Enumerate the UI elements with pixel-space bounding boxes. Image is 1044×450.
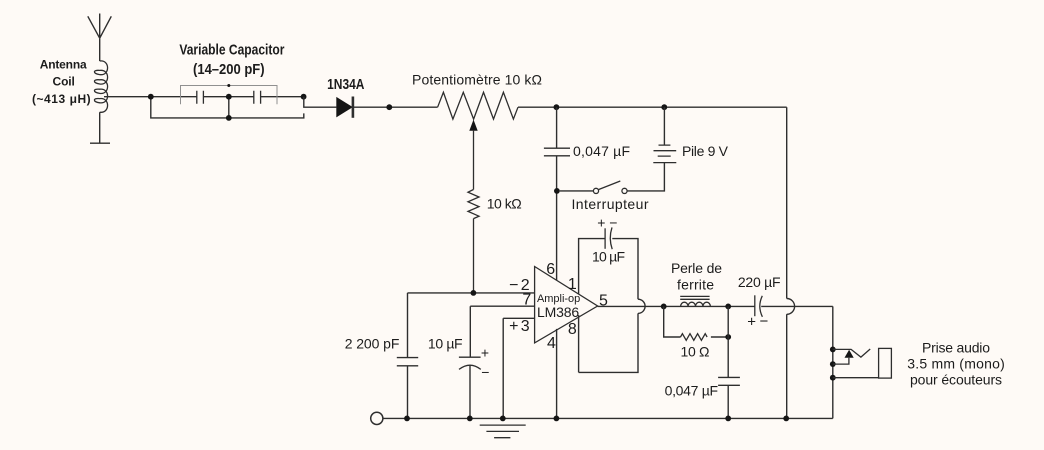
svg-text:+: +: [597, 215, 605, 231]
svg-text:10 Ω: 10 Ω: [681, 343, 710, 359]
svg-text:−: −: [481, 364, 489, 380]
svg-text:Variable Capacitor: Variable Capacitor: [179, 41, 285, 58]
svg-text:Potentiomètre 10 kΩ: Potentiomètre 10 kΩ: [412, 72, 542, 88]
svg-text:Perle de: Perle de: [671, 260, 722, 276]
svg-text:10 kΩ: 10 kΩ: [487, 196, 522, 212]
svg-text:(~413 μH): (~413 μH): [32, 92, 91, 106]
svg-text:−: −: [760, 313, 769, 330]
svg-text:10 µF: 10 µF: [428, 335, 463, 351]
svg-text:5: 5: [599, 293, 608, 310]
svg-text:Prise audio: Prise audio: [922, 340, 990, 356]
svg-text:+: +: [747, 314, 756, 331]
svg-text:Pile 9 V: Pile 9 V: [682, 143, 729, 159]
svg-text:Interrupteur: Interrupteur: [572, 196, 649, 212]
svg-text:Antenna: Antenna: [40, 58, 87, 72]
svg-text:1: 1: [568, 276, 577, 293]
svg-text:Coil: Coil: [53, 75, 75, 89]
svg-text:6: 6: [546, 261, 555, 278]
svg-text:4: 4: [547, 335, 556, 352]
svg-text:pour écouteurs: pour écouteurs: [910, 371, 1002, 387]
svg-text:8: 8: [568, 321, 577, 338]
svg-text:1N34A: 1N34A: [327, 76, 365, 93]
svg-text:−: −: [609, 214, 617, 230]
svg-text:+: +: [481, 344, 489, 360]
svg-text:3.5 mm (mono): 3.5 mm (mono): [907, 356, 1005, 372]
svg-text:10 µF: 10 µF: [592, 249, 625, 265]
svg-text:LM386: LM386: [537, 304, 579, 320]
svg-text:0,047 µF: 0,047 µF: [665, 383, 719, 399]
svg-text:0,047 µF: 0,047 µF: [573, 143, 630, 159]
svg-text:2 200 pF: 2 200 pF: [345, 335, 400, 351]
svg-text:220 µF: 220 µF: [738, 274, 781, 290]
svg-text:+ 3: + 3: [509, 318, 530, 335]
svg-text:(14–200 pF): (14–200 pF): [193, 60, 265, 77]
svg-text:ferrite: ferrite: [677, 276, 714, 292]
